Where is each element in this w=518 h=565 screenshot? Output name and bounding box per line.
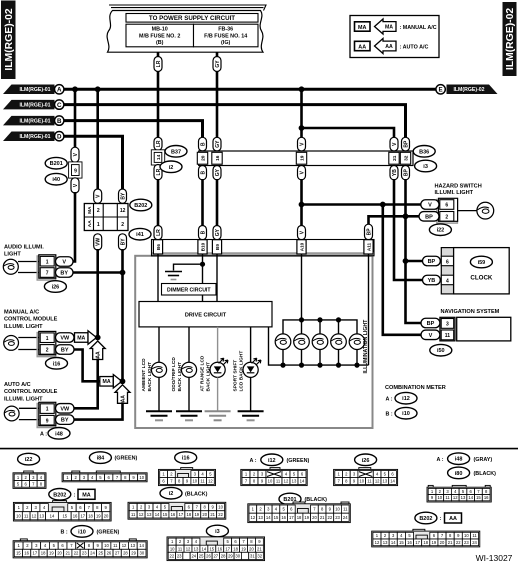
junction V branch to navigation	[380, 202, 386, 208]
lamp ODO/TRIP LCD BACK LIGHT	[181, 362, 196, 377]
svg-text:BP: BP	[427, 321, 435, 327]
svg-text:ODO/TRIP LCD: ODO/TRIP LCD	[171, 357, 177, 392]
svg-text:ILLUMI. LIGHT: ILLUMI. LIGHT	[4, 324, 43, 330]
svg-text:(IG): (IG)	[221, 40, 230, 46]
svg-text:19: 19	[49, 551, 54, 556]
svg-text:17: 17	[80, 513, 85, 518]
svg-text:BP: BP	[366, 228, 372, 236]
svg-text:LR: LR	[156, 140, 162, 147]
wire label V	[56, 257, 74, 267]
svg-text:15: 15	[16, 551, 21, 556]
svg-text:(GREEN): (GREEN)	[115, 456, 138, 462]
illumination lamp 2	[294, 317, 310, 367]
svg-text:i22: i22	[25, 457, 33, 463]
wire label BP	[419, 212, 439, 222]
svg-text:ILM(RGE)-01: ILM(RGE)-01	[19, 134, 50, 140]
svg-text:B: B	[57, 118, 62, 125]
svg-text:28: 28	[123, 551, 128, 556]
svg-text:19: 19	[96, 513, 101, 518]
svg-text:CONTROL MODULE: CONTROL MODULE	[4, 389, 58, 395]
wire BP down	[404, 179, 407, 218]
svg-text:21: 21	[257, 546, 262, 551]
svg-text:11: 11	[24, 513, 29, 518]
connector oval B36	[413, 146, 435, 158]
svg-text:B37: B37	[171, 149, 181, 155]
connector oval i2 (pinout)	[160, 487, 208, 499]
connector B37/i2 pin 14	[151, 150, 164, 165]
wire label LR	[154, 226, 162, 240]
svg-text:7: 7	[46, 271, 49, 277]
combination meter pin B9	[212, 240, 221, 254]
connector B201 pin 9	[69, 162, 82, 178]
connector oval i2	[160, 161, 182, 173]
svg-text:4: 4	[446, 278, 449, 284]
svg-text:17: 17	[415, 540, 420, 545]
illumination bottom rail	[269, 327, 369, 365]
wire BY down	[121, 249, 124, 383]
label AT RANGE LCD BACK LIGHT	[200, 355, 212, 391]
bus wire B then down	[64, 121, 202, 139]
svg-text:B :: B :	[61, 530, 68, 536]
illumination lamp 1	[275, 334, 291, 368]
page title bar ILM(RGE)-02 right	[503, 3, 516, 76]
svg-text:14: 14	[156, 154, 162, 160]
svg-text:12: 12	[375, 540, 380, 545]
wire AT RANGE LCD to ground	[217, 377, 219, 411]
audio lamp leads	[18, 262, 40, 273]
svg-text:20: 20	[202, 512, 207, 517]
wire A11 inside meter	[368, 254, 370, 365]
wire label B	[199, 137, 207, 151]
svg-text:12: 12	[122, 543, 127, 548]
wire label YB	[390, 166, 398, 180]
svg-text:31: 31	[250, 553, 255, 558]
component label COMBINATION METER	[385, 385, 446, 391]
svg-text:ILM(RGE)-01: ILM(RGE)-01	[19, 119, 50, 125]
svg-text:23: 23	[464, 540, 469, 545]
svg-text:13: 13	[130, 543, 135, 548]
svg-text:YB: YB	[392, 169, 398, 176]
junction BY manual	[120, 378, 126, 384]
audio connector pins 1 and 7	[37, 255, 56, 280]
wire A10 inside meter	[301, 254, 303, 320]
wire label BY	[56, 268, 74, 278]
svg-text:VW: VW	[60, 406, 70, 412]
svg-text:16: 16	[215, 155, 221, 161]
connector oval i22 (pinout)	[18, 453, 40, 465]
connector oval A i48	[40, 428, 70, 440]
auto A/C lamp	[4, 406, 19, 421]
branch BP to meter A11	[369, 216, 406, 225]
svg-text:BP: BP	[425, 214, 433, 220]
svg-text:B :: B :	[386, 411, 393, 417]
svg-text:6: 6	[445, 203, 448, 209]
svg-text:AT RANGE LCD: AT RANGE LCD	[200, 355, 206, 391]
wire V1 down to audio corner	[72, 192, 76, 262]
svg-text:i12: i12	[268, 458, 276, 464]
svg-text:BY: BY	[61, 418, 69, 424]
svg-text:18: 18	[297, 515, 302, 520]
branch BP to hazard switch	[406, 215, 422, 218]
svg-text:18: 18	[233, 546, 238, 551]
label ILLUMINATION LIGHT	[363, 319, 369, 374]
svg-text:22: 22	[218, 512, 223, 517]
svg-text:WI-13027: WI-13027	[476, 553, 513, 563]
svg-text:i41: i41	[136, 232, 144, 238]
connector pinout i48/i80	[427, 485, 491, 502]
svg-text:13: 13	[147, 512, 152, 517]
svg-text:29: 29	[131, 551, 136, 556]
svg-text:i50: i50	[437, 348, 445, 354]
svg-text:V: V	[62, 259, 66, 265]
svg-text:13: 13	[258, 515, 263, 520]
svg-text:12: 12	[251, 515, 256, 520]
svg-text:19: 19	[241, 546, 246, 551]
junction on bus A at wire V2	[95, 86, 101, 92]
svg-text:ILM(RGE)-01: ILM(RGE)-01	[19, 87, 50, 93]
variant arrow MA manual VW	[75, 331, 97, 345]
lamp AMBIENT LCD BACK LIGHT	[151, 362, 166, 377]
svg-text:CONTROL MODULE: CONTROL MODULE	[4, 317, 58, 323]
svg-text:MANUAL A/C: MANUAL A/C	[4, 310, 39, 316]
svg-text:11: 11	[472, 533, 477, 538]
svg-text:ILM(RGE)-01: ILM(RGE)-01	[19, 103, 50, 109]
audio lamp	[3, 259, 18, 274]
svg-text:29: 29	[228, 553, 233, 558]
wire V3 from bus A down	[300, 89, 303, 139]
wire label BP	[402, 166, 410, 180]
off-page flag ILM(RGE)-01 C	[3, 100, 64, 110]
svg-text:10: 10	[192, 478, 197, 483]
svg-text:32: 32	[403, 155, 409, 161]
connector label B202 MA	[49, 489, 95, 501]
svg-text:13: 13	[194, 546, 199, 551]
off-page flag ILM(RGE)-01 B	[3, 116, 64, 126]
svg-text:BP: BP	[403, 169, 409, 177]
svg-text:23: 23	[335, 515, 340, 520]
svg-text:AA: AA	[96, 351, 102, 359]
connector oval i40	[45, 173, 67, 185]
wire label BP	[402, 137, 410, 151]
off-page flag ILM(RGE)-01 D	[3, 131, 64, 141]
svg-text:24: 24	[90, 551, 95, 556]
svg-text:NAVIGATION SYSTEM: NAVIGATION SYSTEM	[441, 309, 500, 315]
illumination top rail	[283, 320, 357, 335]
svg-text:MA: MA	[358, 25, 366, 31]
connector pinout B202-AA	[372, 529, 480, 547]
svg-text:ILLUMI. LIGHT: ILLUMI. LIGHT	[435, 190, 474, 196]
svg-text:21: 21	[210, 512, 215, 517]
page title bar ILM(RGE)-02 left	[2, 1, 16, 79]
navigation pin strip pins 3 and 11	[440, 317, 455, 341]
auto A/C lamp leads	[19, 408, 40, 419]
drive circuit box	[139, 302, 272, 327]
svg-text:i40: i40	[52, 177, 60, 183]
wire BP down to navigation	[406, 261, 423, 323]
variant arrow AA on BY wire	[115, 385, 130, 404]
svg-text:V: V	[429, 333, 433, 339]
wire label B	[199, 226, 207, 240]
svg-text:22: 22	[328, 515, 333, 520]
component label AUTO A/C CONTROL MODULE ILLUMI. LIGHT	[4, 382, 58, 402]
svg-text:V: V	[428, 202, 432, 208]
connector oval i41	[129, 228, 151, 240]
svg-text:19: 19	[432, 540, 437, 545]
wire label BY	[119, 189, 127, 203]
wire label BY	[119, 234, 127, 250]
svg-text:LCD BACK LIGHT: LCD BACK LIGHT	[239, 351, 245, 392]
node E circle	[436, 85, 445, 94]
svg-text:13: 13	[461, 495, 466, 500]
svg-text:20: 20	[440, 540, 445, 545]
svg-text:B6: B6	[156, 244, 161, 250]
wire drive circuit to AMBIENT LCD	[158, 327, 160, 363]
svg-text:YB: YB	[428, 278, 436, 284]
svg-text:9: 9	[46, 418, 49, 424]
svg-text:AUDIO ILLUMI.: AUDIO ILLUMI.	[4, 245, 44, 251]
svg-text:23: 23	[82, 551, 87, 556]
svg-text:16: 16	[73, 513, 78, 518]
svg-text:2: 2	[445, 214, 448, 220]
wire AMBIENT LCD to ground	[158, 377, 160, 411]
component label MANUAL A/C CONTROL MODULE ILLUMI. LIGHT	[4, 310, 58, 330]
svg-text:FB-36: FB-36	[218, 27, 233, 33]
wire B6 inside meter	[157, 254, 159, 302]
svg-text:(B): (B)	[156, 40, 164, 46]
ground for AT RANGE LCD	[205, 411, 231, 420]
svg-text:13: 13	[292, 478, 297, 483]
component label NAVIGATION SYSTEM	[441, 309, 500, 315]
svg-text:BP: BP	[403, 140, 409, 148]
svg-text:14: 14	[202, 546, 207, 551]
svg-text:B202: B202	[53, 492, 66, 498]
svg-text:BY: BY	[120, 238, 126, 246]
hazard lamp lead	[458, 210, 477, 212]
wire label GY	[213, 166, 221, 180]
wire manual BY	[74, 350, 100, 382]
ground for ODO/TRIP LCD	[176, 411, 202, 420]
svg-text:20: 20	[312, 515, 317, 520]
svg-text:11: 11	[445, 333, 451, 339]
legend box MANUAL A/C / AUTO A/C arrows	[350, 16, 439, 58]
component label CLOCK	[470, 275, 493, 282]
connector oval A i12 (pinout)	[250, 454, 310, 466]
svg-text:14: 14	[468, 495, 473, 500]
junction B10 ground branch	[200, 262, 205, 267]
svg-text:27: 27	[213, 553, 218, 558]
svg-text:21: 21	[320, 515, 325, 520]
wire YB down to clock	[394, 179, 423, 280]
connector oval i26 (pinout)	[355, 454, 377, 466]
svg-text:MA: MA	[77, 335, 85, 341]
connector pinout i16	[159, 468, 216, 486]
connector pinout B202-MA	[13, 501, 111, 521]
svg-text:AA: AA	[449, 516, 457, 522]
bus wire D then down as BY	[64, 136, 122, 191]
ground for SPORT SHIFT	[238, 411, 264, 420]
svg-text:22: 22	[456, 540, 461, 545]
svg-text:16: 16	[171, 512, 176, 517]
svg-text:11: 11	[200, 478, 205, 483]
connector oval i3 (pinout)	[206, 525, 228, 537]
svg-text:MA: MA	[385, 24, 393, 30]
svg-text:6: 6	[446, 259, 449, 265]
connector oval i16 (pinout)	[175, 452, 197, 464]
svg-text:B: B	[200, 230, 206, 234]
svg-text:10: 10	[359, 478, 364, 483]
svg-text:12: 12	[375, 478, 380, 483]
svg-text:16: 16	[217, 546, 222, 551]
illumination lamp 3	[312, 317, 328, 367]
svg-text:15: 15	[62, 513, 67, 518]
wire LR down to meter	[157, 179, 160, 227]
svg-text:SPORT SHIFT: SPORT SHIFT	[233, 360, 239, 392]
branch BP to clock	[406, 260, 423, 263]
svg-text:VW: VW	[96, 238, 102, 246]
svg-text:16: 16	[281, 515, 286, 520]
auto A/C connector pins 1 and 9	[37, 402, 56, 427]
combination meter pin B6	[153, 240, 162, 254]
wire label LR	[154, 57, 162, 72]
svg-text:16: 16	[407, 540, 412, 545]
wire LR from power supply	[157, 52, 160, 58]
wire GY down to meter	[216, 179, 219, 227]
wire label BY	[56, 345, 75, 355]
svg-text:B202: B202	[419, 516, 432, 522]
svg-text:14: 14	[266, 515, 271, 520]
svg-text:14: 14	[391, 540, 396, 545]
junction BP at clock	[403, 258, 409, 264]
wire GY from power supply	[216, 52, 219, 58]
svg-text:(GREEN): (GREEN)	[97, 530, 120, 536]
branch V to hazard switch	[302, 203, 422, 206]
svg-text:(BLACK): (BLACK)	[474, 471, 497, 477]
connector oval A i12	[386, 392, 418, 404]
connector pinout i12	[241, 468, 307, 486]
svg-text:14: 14	[390, 478, 395, 483]
svg-text::: :	[440, 516, 442, 522]
svg-text:2: 2	[97, 208, 100, 214]
svg-text:LR: LR	[156, 229, 162, 236]
wire label V	[71, 147, 79, 162]
svg-text:11: 11	[276, 478, 281, 483]
wire label VW	[94, 234, 102, 250]
svg-text:16: 16	[484, 495, 489, 500]
svg-text:12: 12	[186, 546, 191, 551]
wire label VW	[56, 404, 75, 414]
branch wire to pin 21	[302, 128, 395, 139]
variant arrow AA on VW wire	[90, 341, 105, 360]
hazard connector body	[437, 198, 458, 223]
connector pinout i3	[167, 537, 265, 561]
svg-text:13: 13	[383, 478, 388, 483]
connector oval B201	[45, 157, 67, 169]
svg-text:15: 15	[476, 495, 481, 500]
svg-text:i2: i2	[169, 165, 174, 171]
connector oval i84 (pinout)	[89, 452, 137, 464]
wire label YB	[423, 275, 441, 285]
label SPORT SHIFT LCD BACK LIGHT	[233, 351, 245, 392]
svg-text:19: 19	[194, 512, 199, 517]
svg-text:10: 10	[268, 478, 273, 483]
svg-text:10: 10	[139, 475, 144, 480]
svg-text:24: 24	[343, 515, 348, 520]
svg-text:: AUTO A/C: : AUTO A/C	[400, 44, 429, 50]
connector oval B37	[165, 146, 187, 158]
svg-text:BACK LIGHT: BACK LIGHT	[177, 362, 183, 392]
svg-text:25: 25	[98, 551, 103, 556]
svg-text:i26: i26	[52, 284, 60, 290]
svg-text:13: 13	[383, 540, 388, 545]
svg-text:i59: i59	[478, 260, 486, 266]
svg-text:GY: GY	[215, 60, 221, 68]
wire label V	[94, 189, 102, 203]
wire label BY	[56, 415, 75, 425]
wire VW down to auto A/C	[73, 359, 98, 409]
svg-text:15: 15	[163, 512, 168, 517]
dimmer circuit box	[162, 284, 217, 296]
svg-text:1: 1	[46, 407, 49, 413]
svg-text:1: 1	[97, 222, 100, 228]
wire label GY	[213, 137, 221, 151]
svg-text:20: 20	[104, 513, 109, 518]
svg-text:C: C	[57, 102, 62, 109]
svg-text:i3: i3	[215, 529, 220, 535]
wire label V	[298, 226, 306, 240]
svg-text:20: 20	[249, 546, 254, 551]
svg-text:12: 12	[139, 512, 144, 517]
svg-text:ILM(RGE)-02: ILM(RGE)-02	[505, 8, 516, 71]
combination meter box	[135, 256, 372, 428]
svg-text:2: 2	[46, 348, 49, 354]
connector pinout i26	[334, 468, 398, 486]
svg-text:F/B FUSE NO. 14: F/B FUSE NO. 14	[204, 33, 247, 39]
label AMBIENT LCD BACK LIGHT	[141, 358, 153, 392]
manual A/C connector pins 1 and 2	[37, 331, 56, 356]
connector oval i80 (pinout)	[448, 467, 497, 479]
svg-text:20: 20	[57, 551, 62, 556]
svg-text:28: 28	[221, 553, 226, 558]
separator line	[0, 448, 518, 450]
svg-text:(BLACK): (BLACK)	[185, 491, 208, 497]
svg-text:AMBIENT LCD: AMBIENT LCD	[141, 358, 147, 392]
svg-text:(BLACK): (BLACK)	[305, 497, 328, 503]
svg-text:i2: i2	[169, 491, 174, 497]
combination meter pin A11	[364, 240, 373, 254]
svg-text:24: 24	[191, 553, 196, 558]
navigation body box	[457, 317, 511, 341]
svg-text:MA: MA	[82, 493, 90, 499]
wire label V	[390, 137, 398, 151]
svg-text:ILLUMINATION LIGHT: ILLUMINATION LIGHT	[363, 319, 369, 374]
off-page flag ILM(RGE)-01 A	[3, 85, 64, 95]
svg-text:LIGHT: LIGHT	[4, 251, 21, 257]
svg-text:25: 25	[199, 553, 204, 558]
svg-text:2: 2	[121, 222, 124, 228]
wire drive circuit to SPORT SHIFT	[250, 327, 252, 363]
connector oval i16	[46, 358, 68, 370]
wire label GY	[213, 57, 221, 72]
junction VW manual	[95, 335, 101, 341]
svg-text:11: 11	[367, 478, 372, 483]
svg-text:12: 12	[32, 513, 37, 518]
wire B down to meter	[201, 179, 204, 227]
wire ODO/TRIP LCD to ground	[188, 377, 190, 411]
clock pin strip pins 6 and 4	[441, 248, 453, 294]
svg-text:i10: i10	[402, 411, 410, 417]
svg-text:GY: GY	[215, 168, 221, 176]
svg-text:10: 10	[170, 546, 175, 551]
